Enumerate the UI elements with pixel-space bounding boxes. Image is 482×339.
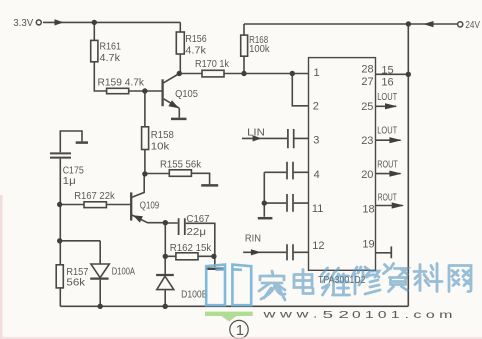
- svg-text:LOUT: LOUT: [377, 125, 397, 137]
- svg-text:3.3V: 3.3V: [13, 17, 33, 29]
- svg-text:D100A: D100A: [112, 265, 135, 277]
- svg-text:4: 4: [314, 169, 320, 181]
- svg-text:D100B: D100B: [181, 289, 207, 301]
- svg-text:R167 22k: R167 22k: [74, 190, 115, 202]
- svg-text:C167: C167: [187, 213, 210, 225]
- svg-text:0 1 0 1: 0 1 0 1: [352, 309, 400, 321]
- svg-text:RIN: RIN: [245, 233, 261, 245]
- svg-text:R162 15k: R162 15k: [170, 242, 212, 254]
- svg-text:25: 25: [361, 101, 373, 113]
- svg-text:19: 19: [362, 238, 374, 250]
- svg-text:1: 1: [314, 67, 320, 79]
- svg-text:22μ: 22μ: [187, 226, 207, 238]
- svg-text:16: 16: [381, 77, 393, 89]
- svg-text:5 2: 5 2: [323, 309, 350, 321]
- svg-text:ROUT: ROUT: [377, 159, 398, 171]
- svg-text:R156: R156: [185, 33, 206, 45]
- svg-text:27: 27: [361, 76, 373, 88]
- svg-text:LOUT: LOUT: [377, 91, 397, 103]
- svg-text:10k: 10k: [151, 141, 170, 153]
- svg-text:R159 4.7k: R159 4.7k: [98, 76, 145, 88]
- svg-text:LIN: LIN: [247, 127, 265, 139]
- svg-text:18: 18: [362, 203, 374, 215]
- svg-text:w w w .: w w w .: [262, 309, 318, 321]
- svg-text:2: 2: [313, 101, 319, 113]
- svg-text:R158: R158: [151, 129, 174, 141]
- svg-text:Q109: Q109: [140, 200, 160, 212]
- svg-text:100k: 100k: [249, 43, 270, 55]
- svg-text:12: 12: [312, 240, 324, 252]
- svg-text:4.7k: 4.7k: [185, 45, 206, 57]
- svg-text:20: 20: [361, 169, 373, 181]
- svg-text:Q105: Q105: [175, 88, 198, 100]
- svg-text:11: 11: [312, 203, 323, 215]
- svg-text:56k: 56k: [66, 276, 86, 288]
- svg-text:28: 28: [361, 64, 373, 76]
- svg-text:24V: 24V: [465, 19, 480, 31]
- svg-text:1μ: 1μ: [63, 175, 76, 187]
- svg-text:23: 23: [361, 135, 373, 147]
- svg-text:3: 3: [313, 135, 319, 147]
- svg-text:. c o m: . c o m: [405, 309, 453, 321]
- svg-text:1: 1: [236, 322, 244, 339]
- svg-text:ROUT: ROUT: [378, 192, 398, 204]
- svg-text:R161: R161: [100, 40, 122, 52]
- svg-text:4.7k: 4.7k: [100, 52, 121, 64]
- svg-text:R170 1k: R170 1k: [195, 58, 230, 70]
- svg-text:15: 15: [381, 65, 393, 77]
- svg-text:R155 56k: R155 56k: [160, 159, 202, 171]
